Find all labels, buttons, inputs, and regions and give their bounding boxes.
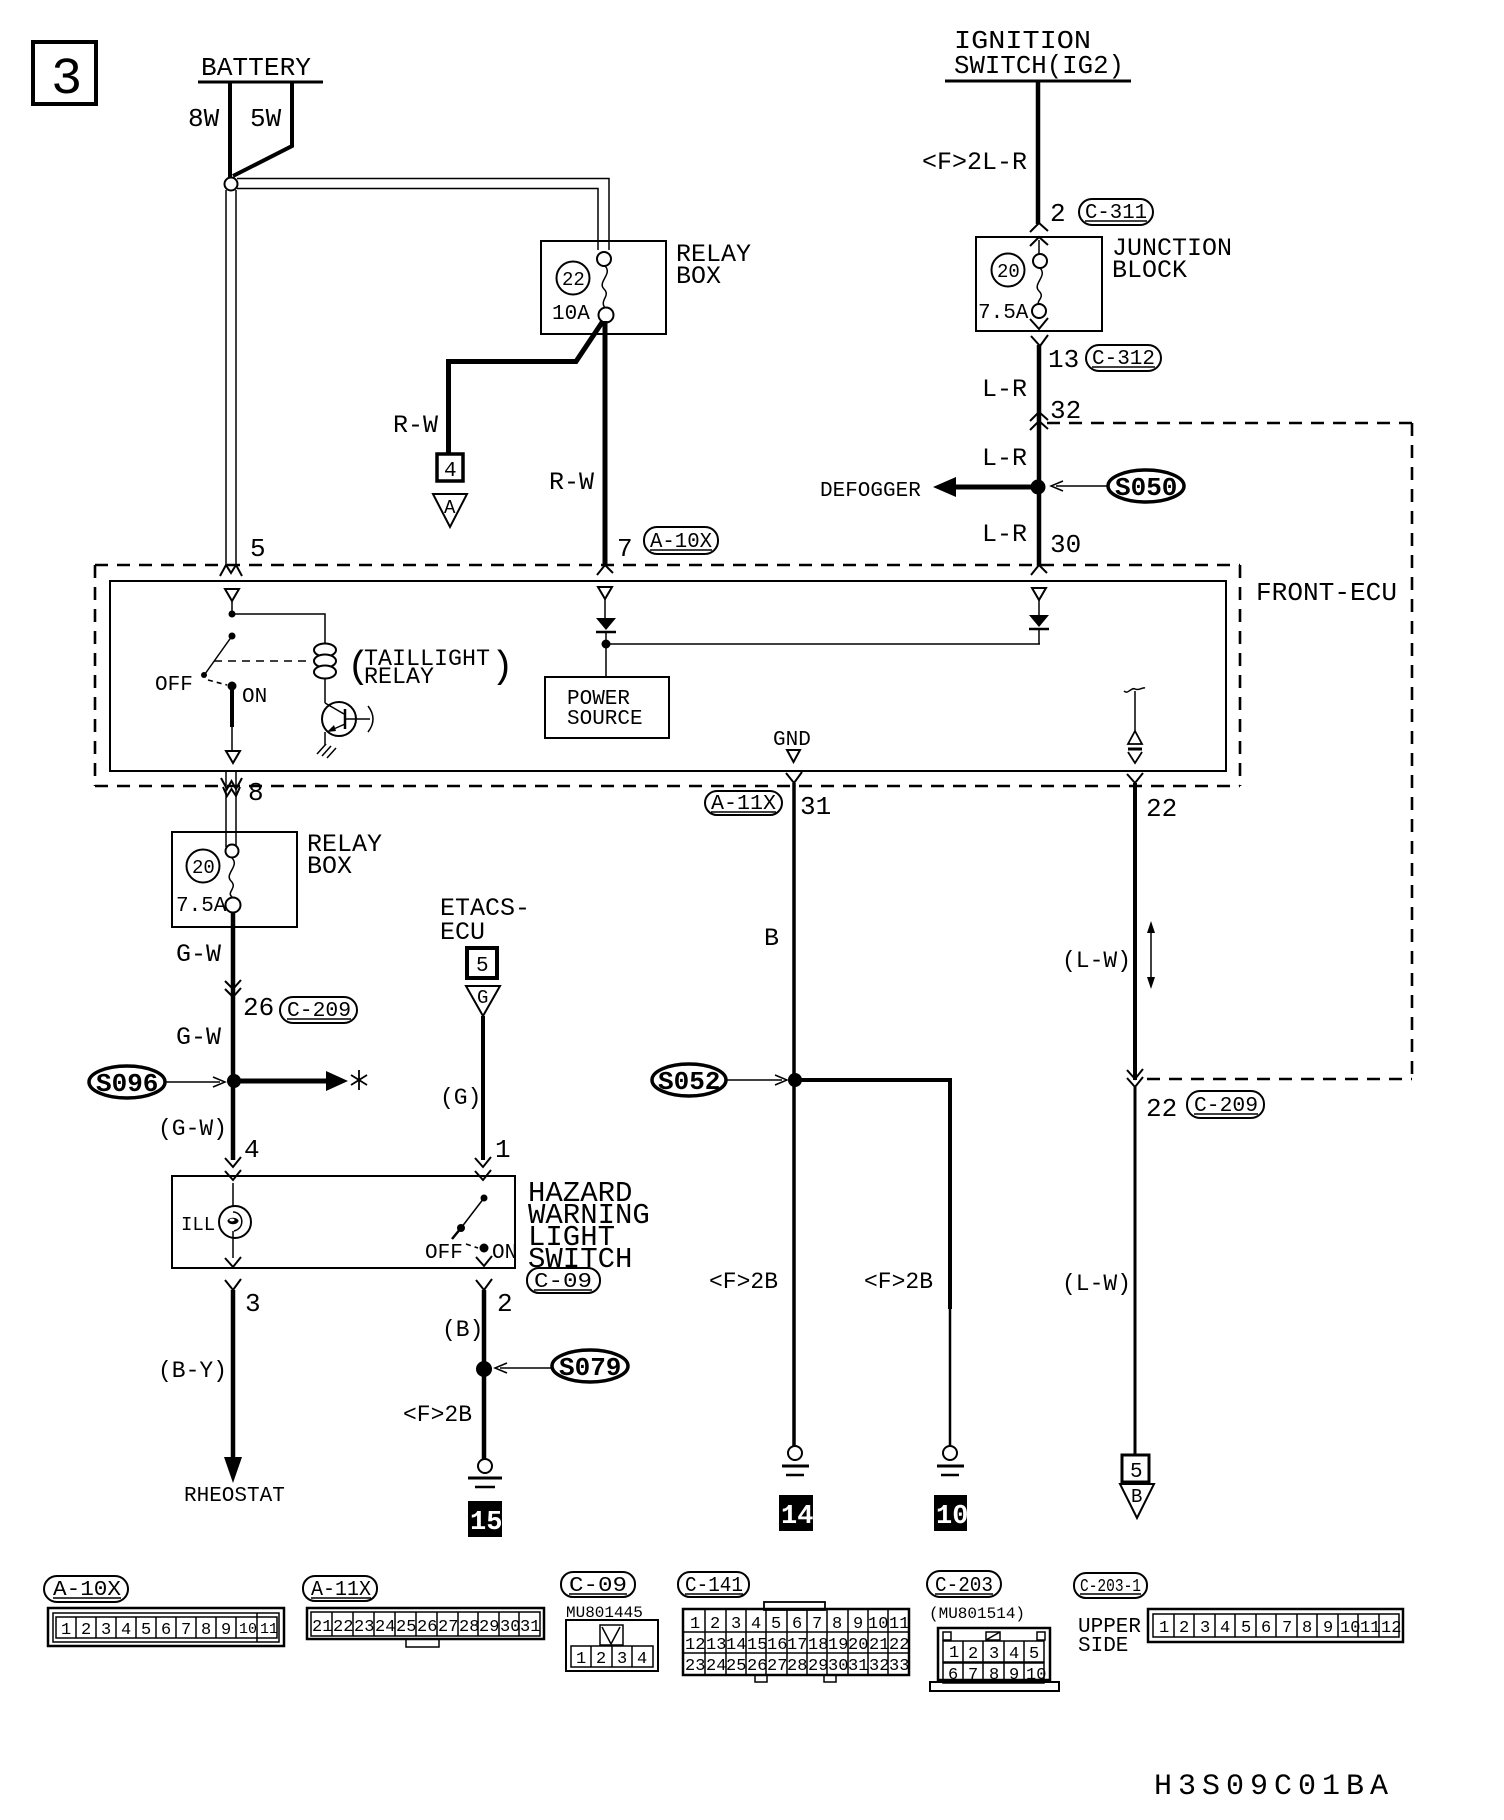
svg-text:(B): (B) (442, 1317, 483, 1343)
triangle A destination (433, 494, 467, 527)
diode D2 (1029, 615, 1049, 627)
svg-text:GND: GND (773, 729, 811, 752)
wire lamp to pin 3 (232, 1231, 234, 1258)
svg-text:6: 6 (161, 1621, 171, 1640)
svg-text:2: 2 (497, 1289, 513, 1319)
svg-text:14: 14 (726, 1636, 746, 1655)
splice S096 (89, 1066, 165, 1098)
junction block JB (976, 237, 1102, 331)
svg-text:ECU: ECU (440, 918, 485, 947)
svg-text:ILL: ILL (181, 1214, 215, 1236)
svg-text:OFF: OFF (425, 1242, 463, 1265)
svg-text:26: 26 (243, 993, 274, 1023)
connector label C-203-1 bottom (1074, 1573, 1147, 1598)
svg-text:3: 3 (101, 1621, 111, 1640)
svg-text:23: 23 (685, 1657, 705, 1676)
svg-text:29: 29 (808, 1657, 828, 1676)
svg-text:S052: S052 (658, 1067, 720, 1097)
sheet number box 3 (33, 42, 96, 104)
wire hazard to ground (482, 1290, 487, 1459)
splice S052 (652, 1064, 726, 1096)
connector marker wire 8 exit (221, 778, 242, 789)
svg-text:G: G (477, 987, 488, 1009)
svg-text:3: 3 (1200, 1619, 1210, 1638)
pin triangle wire 7 (598, 587, 612, 599)
connector C-141 pin face (683, 1602, 909, 1682)
asterisk destination (351, 1070, 367, 1090)
svg-text:(G-W): (G-W) (158, 1116, 227, 1142)
wire R-W branch to terminal 4 (449, 321, 604, 455)
FRONT-ECU dashed boundary (95, 564, 1240, 567)
svg-text:8: 8 (989, 1666, 999, 1685)
connector marker wire 5 entry (220, 565, 242, 576)
illumination lamp block (hazard switch unit) (172, 1176, 515, 1268)
svg-text:L-R: L-R (982, 520, 1027, 549)
connector marker wire 30 entry (1031, 565, 1047, 575)
svg-text:ON: ON (242, 686, 267, 709)
battery bus bar (198, 81, 323, 84)
node power source junction (602, 640, 611, 649)
svg-text:7.5A: 7.5A (176, 895, 227, 918)
svg-text:(L-W): (L-W) (1062, 948, 1131, 974)
svg-text:FRONT-ECU: FRONT-ECU (1256, 578, 1397, 608)
svg-text:9: 9 (221, 1621, 231, 1640)
node hazard ON contact (480, 1244, 489, 1253)
svg-text:24: 24 (375, 1618, 395, 1637)
wire switch to pin 8 (230, 687, 234, 727)
svg-text:8: 8 (201, 1621, 211, 1640)
svg-text:8: 8 (832, 1615, 842, 1634)
fuse F22 10A (597, 252, 611, 266)
svg-text:24: 24 (706, 1657, 726, 1676)
svg-text:27: 27 (438, 1618, 458, 1637)
connector label C-209 (280, 997, 357, 1023)
svg-text:10: 10 (1340, 1619, 1360, 1638)
svg-text:10A: 10A (552, 303, 590, 326)
connector marker wire 31 exit (786, 772, 802, 783)
svg-text:R-W: R-W (549, 468, 594, 497)
svg-text:22: 22 (1146, 794, 1177, 824)
svg-text:): ) (491, 646, 514, 689)
svg-text:22: 22 (1146, 1094, 1177, 1124)
ground chassis hatch (317, 744, 326, 754)
wire to relay coil (232, 614, 325, 643)
svg-text:10: 10 (1026, 1666, 1046, 1685)
svg-text:BOX: BOX (307, 852, 352, 881)
wire battery junction to relay box (double line) (237, 179, 609, 251)
wire branch to asterisk (234, 1079, 328, 1084)
svg-text:R-W: R-W (393, 411, 438, 440)
svg-text:4: 4 (637, 1650, 647, 1669)
wire 31 B to grounds (792, 783, 796, 1447)
wire G to hazard switch (481, 1016, 485, 1160)
svg-text:20: 20 (192, 857, 215, 879)
taillight relay coil (314, 644, 336, 657)
pin triangle wire 30 (1032, 588, 1046, 600)
connector marker C-209 pin 26 (225, 980, 241, 989)
svg-text:9: 9 (853, 1615, 863, 1634)
connector label C-09 (527, 1268, 600, 1293)
svg-text:S079: S079 (559, 1353, 621, 1383)
wire 8W from battery (228, 82, 232, 178)
wire L-R junction block down (1037, 345, 1042, 566)
wire ignition to junction block (1036, 81, 1041, 224)
svg-text:20: 20 (848, 1636, 868, 1655)
connector C-203-1 pin face (1148, 1609, 1403, 1642)
connector marker C-209 pin 22 (1127, 1069, 1143, 1079)
svg-text:L-R: L-R (982, 375, 1027, 404)
svg-text:32: 32 (869, 1657, 889, 1676)
svg-text:3: 3 (51, 50, 82, 109)
wire G-W fuse to S096 (231, 912, 236, 1160)
connector label C-209 right (1187, 1091, 1264, 1118)
svg-text:10: 10 (239, 1621, 257, 1638)
svg-text:6: 6 (1261, 1619, 1271, 1638)
wire taillight relay feed (231, 601, 233, 614)
svg-text:A: A (444, 497, 456, 519)
connector label C-09 bottom (561, 1572, 635, 1597)
svg-text:7: 7 (181, 1621, 191, 1640)
connector marker pin 1 (475, 1157, 491, 1167)
node switch contact top (229, 633, 236, 640)
splice S050 (1108, 470, 1184, 502)
svg-text:31: 31 (520, 1618, 540, 1637)
wire 8 to relay box RB2 (double line) (225, 771, 227, 847)
svg-text:28: 28 (459, 1618, 479, 1637)
node ON contact (228, 682, 237, 691)
hazard switch contact (481, 1195, 488, 1202)
wire to lamp (232, 1183, 234, 1213)
svg-text:10: 10 (868, 1615, 888, 1634)
svg-text:6: 6 (948, 1666, 958, 1685)
svg-text:8: 8 (1302, 1619, 1312, 1638)
svg-text:7: 7 (812, 1615, 822, 1634)
svg-text:22: 22 (562, 269, 585, 291)
svg-text:4: 4 (1220, 1619, 1230, 1638)
svg-text:33: 33 (889, 1657, 909, 1676)
splice S079 (552, 1350, 628, 1382)
svg-text:25: 25 (726, 1657, 746, 1676)
connector chevrons pin 13 (1030, 318, 1048, 329)
connector C-203 pin face (930, 1628, 1059, 1691)
terminal 5 box ETACS (467, 948, 497, 978)
svg-text:4: 4 (444, 460, 457, 483)
svg-text:15: 15 (747, 1636, 767, 1655)
connector label C-312 (1086, 345, 1161, 371)
svg-text:G-W: G-W (176, 940, 221, 969)
wire B-Y to rheostat (231, 1290, 236, 1460)
FRONT-ECU body (110, 581, 1226, 771)
svg-text:2: 2 (81, 1621, 91, 1640)
svg-text:7: 7 (617, 534, 633, 564)
connector A-11X pin face (307, 1608, 544, 1647)
connector chevrons pin 2 (1030, 223, 1048, 232)
connector label A-10X bottom (44, 1576, 128, 1602)
svg-text:15: 15 (470, 1508, 502, 1538)
svg-text:29: 29 (479, 1618, 499, 1637)
svg-text:3: 3 (989, 1645, 999, 1664)
fuse number circle 22 (557, 262, 590, 295)
svg-text:RHEOSTAT: RHEOSTAT (184, 1485, 285, 1508)
svg-text:(B-Y): (B-Y) (158, 1358, 227, 1384)
svg-text:4: 4 (244, 1135, 260, 1165)
svg-text:3: 3 (731, 1615, 741, 1634)
svg-text:14: 14 (781, 1502, 813, 1532)
triangle G source (466, 986, 500, 1016)
svg-text:8: 8 (248, 778, 264, 808)
connector label A-10X (644, 527, 718, 554)
svg-text:SOURCE: SOURCE (567, 708, 643, 731)
switch dashed link (208, 680, 227, 685)
svg-text:1: 1 (1159, 1619, 1169, 1638)
svg-text:12: 12 (685, 1636, 705, 1655)
svg-text:13: 13 (706, 1636, 726, 1655)
node S050 defogger junction (1031, 480, 1046, 495)
svg-text:26: 26 (417, 1618, 437, 1637)
svg-text:OFF: OFF (155, 674, 193, 697)
svg-text:(MU801514): (MU801514) (929, 1605, 1025, 1623)
svg-text:4: 4 (1009, 1645, 1019, 1664)
svg-text:22: 22 (333, 1618, 353, 1637)
diode D1 (596, 618, 616, 630)
connector marker wire 22 exit (1127, 773, 1143, 783)
svg-text:7: 7 (968, 1666, 978, 1685)
svg-text:<F>2B: <F>2B (709, 1269, 778, 1295)
connector label C-203 bottom (927, 1571, 1001, 1597)
node S052 junction (788, 1073, 802, 1087)
wire 5W from battery (233, 82, 292, 176)
wire L-W to terminal 5 (1134, 1087, 1137, 1455)
svg-text:L-R: L-R (982, 444, 1027, 473)
wire diode bus (606, 643, 1040, 645)
svg-text:23: 23 (354, 1618, 374, 1637)
svg-text:30: 30 (828, 1657, 848, 1676)
fuse number circle 20 (187, 850, 220, 883)
svg-text:9: 9 (1009, 1666, 1019, 1685)
connector A-10X pin face (48, 1608, 284, 1646)
svg-text:5: 5 (1241, 1619, 1251, 1638)
svg-text:BLOCK: BLOCK (1112, 256, 1187, 285)
wire coil to transistor (324, 678, 326, 703)
svg-text:22: 22 (889, 1636, 909, 1655)
wire 5 battery to FRONT-ECU (double line) (225, 190, 227, 566)
svg-text:DEFOGGER: DEFOGGER (820, 480, 921, 503)
svg-text:S096: S096 (96, 1069, 158, 1099)
terminal 5 box (1122, 1455, 1149, 1482)
relay box RB2 (172, 832, 297, 927)
svg-text:11: 11 (889, 1615, 909, 1634)
svg-text:3: 3 (245, 1289, 261, 1319)
svg-text:<F>2B: <F>2B (403, 1402, 472, 1428)
FRONT-ECU dashed extension around wires 32/22 (1047, 422, 1412, 425)
internal link pin 22 (1124, 688, 1145, 692)
splice node S079 (476, 1361, 492, 1377)
ground G10 (943, 1446, 957, 1460)
svg-text:30: 30 (1050, 530, 1081, 560)
svg-text:13: 13 (1048, 345, 1079, 375)
svg-text:12: 12 (1381, 1619, 1401, 1638)
connector marker pin 3 (225, 1257, 241, 1267)
svg-text:16: 16 (767, 1636, 787, 1655)
ground id 10 (934, 1495, 967, 1531)
svg-text:32: 32 (1050, 396, 1081, 426)
svg-text:B: B (1131, 1486, 1142, 1508)
node relay coil tap (229, 611, 236, 618)
lamp ILL (219, 1206, 251, 1238)
svg-text:SIDE: SIDE (1078, 1635, 1128, 1658)
svg-text:1: 1 (949, 1644, 959, 1663)
connector chevrons pin 32 (1030, 412, 1048, 421)
svg-text:RELAY: RELAY (364, 664, 434, 690)
svg-text:6: 6 (792, 1615, 802, 1634)
power source block (545, 677, 669, 738)
svg-text:2: 2 (1179, 1619, 1189, 1638)
svg-text:31: 31 (848, 1657, 868, 1676)
svg-text:SWITCH(IG2): SWITCH(IG2) (954, 51, 1124, 81)
svg-text:5: 5 (476, 955, 489, 978)
svg-text:1: 1 (61, 1621, 71, 1640)
svg-text:(G): (G) (440, 1085, 481, 1111)
connector marker wire 7 entry (597, 565, 613, 575)
svg-text:2: 2 (1050, 199, 1066, 229)
svg-text:19: 19 (828, 1636, 848, 1655)
relay coil dashed actuator line (214, 660, 310, 662)
wire 22 L-W down (1133, 783, 1137, 1080)
svg-text:8W: 8W (188, 104, 220, 134)
svg-text:B: B (764, 924, 779, 953)
svg-text:11: 11 (260, 1621, 278, 1638)
connector marker pin 2 (476, 1256, 492, 1266)
wire branch to ground 10 (795, 1080, 950, 1309)
svg-text:21: 21 (312, 1618, 332, 1637)
svg-text:25: 25 (396, 1618, 416, 1637)
fuse F20b 7.5A (226, 845, 239, 858)
ground id 14 (779, 1495, 813, 1531)
twisted pair arrow (1150, 928, 1152, 982)
ground id 15 (468, 1501, 502, 1537)
svg-text:9: 9 (1323, 1619, 1333, 1638)
svg-text:2: 2 (596, 1650, 606, 1669)
terminal 4 box (437, 454, 463, 481)
svg-text:1: 1 (690, 1615, 700, 1634)
svg-text:7.5A: 7.5A (978, 302, 1029, 325)
svg-text:4: 4 (751, 1615, 761, 1634)
connector label C-311 (1079, 199, 1153, 225)
pin triangle GND (787, 750, 800, 762)
svg-text:<F>2B: <F>2B (864, 1269, 933, 1295)
svg-text:G-W: G-W (176, 1023, 221, 1052)
svg-text:18: 18 (808, 1636, 828, 1655)
svg-text:H3S09C01BA: H3S09C01BA (1154, 1770, 1394, 1804)
svg-text:10: 10 (936, 1502, 968, 1532)
connector label A-11X (705, 791, 782, 815)
transistor Q1 (322, 702, 356, 736)
svg-text:11: 11 (1360, 1619, 1380, 1638)
svg-text:4: 4 (121, 1621, 131, 1640)
svg-text:17: 17 (787, 1636, 807, 1655)
svg-text:5: 5 (1029, 1645, 1039, 1664)
ground G14 (788, 1446, 802, 1460)
svg-text:20: 20 (997, 261, 1020, 283)
svg-text:S050: S050 (1115, 473, 1177, 503)
svg-text:5: 5 (141, 1621, 151, 1640)
svg-text:7: 7 (1282, 1619, 1292, 1638)
svg-text:BATTERY: BATTERY (201, 53, 311, 83)
svg-text:27: 27 (767, 1657, 787, 1676)
svg-text:1: 1 (576, 1650, 586, 1669)
node battery junction (225, 178, 238, 191)
svg-text:5: 5 (771, 1615, 781, 1634)
svg-text:2: 2 (968, 1645, 978, 1664)
pin triangle wire 8 (226, 751, 240, 763)
connector marker pin 4 (225, 1157, 241, 1167)
triangle B destination (1120, 1484, 1154, 1518)
svg-text:26: 26 (747, 1657, 767, 1676)
svg-text:5W: 5W (250, 104, 282, 134)
fuse number circle 20 (992, 254, 1025, 287)
fuse F20 7.5A (1033, 254, 1047, 268)
ground G15 (478, 1459, 492, 1473)
pin triangle wire 5 (225, 589, 239, 601)
svg-text:31: 31 (800, 792, 831, 822)
svg-text:3: 3 (617, 1650, 627, 1669)
svg-text:BOX: BOX (676, 262, 721, 291)
svg-text:21: 21 (869, 1636, 889, 1655)
relay box RB1 (541, 241, 666, 334)
svg-text:<F>2L-R: <F>2L-R (922, 148, 1027, 177)
switch arm taillight relay (205, 636, 232, 674)
connector label A-11X bottom (303, 1576, 377, 1601)
svg-text:1: 1 (495, 1135, 511, 1165)
node S096 junction (227, 1074, 241, 1088)
connector label C-141 bottom (678, 1572, 749, 1597)
svg-text:(L-W): (L-W) (1062, 1271, 1131, 1297)
svg-text:28: 28 (787, 1657, 807, 1676)
svg-text:30: 30 (500, 1618, 520, 1637)
svg-text:5: 5 (250, 534, 266, 564)
svg-text:ON: ON (492, 1242, 517, 1265)
wire 7 R-W relay box to FRONT-ECU (603, 321, 608, 566)
wire defogger branch (953, 485, 1038, 490)
svg-text:5: 5 (1130, 1461, 1143, 1484)
svg-text:2: 2 (710, 1615, 720, 1634)
connector C-09 pin face (566, 1620, 658, 1671)
